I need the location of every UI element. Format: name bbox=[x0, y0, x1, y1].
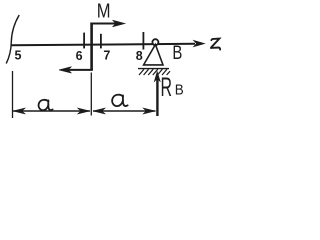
svg-text:M: M bbox=[97, 1, 111, 23]
dim arrowhead right-in (to RB shaft) bbox=[143, 108, 156, 114]
R_B label bbox=[161, 72, 184, 102]
couple top arrow (shaft) bbox=[90, 23, 116, 25]
dimension label a (left) bbox=[39, 100, 53, 110]
reaction force R_B arrow shaft bbox=[156, 78, 158, 116]
tick node 8 bbox=[142, 32, 144, 50]
dimension label a (right) bbox=[112, 95, 127, 106]
dimension extension line middle bbox=[90, 73, 92, 116]
couple bottom arrowhead bbox=[59, 67, 72, 73]
beam (main horizontal bar) bbox=[11, 44, 195, 46]
svg-text:B: B bbox=[175, 82, 184, 99]
z-axis arrowhead bbox=[194, 40, 205, 46]
support pin circle bbox=[152, 39, 158, 45]
tick node 7 bbox=[100, 34, 102, 49]
svg-text:5: 5 bbox=[15, 49, 22, 63]
dimension line a (left span) bbox=[13, 110, 90, 112]
dim arrowhead left-in (from middle) bbox=[93, 108, 106, 114]
svg-text:7: 7 bbox=[103, 48, 110, 62]
couple top arrowhead bbox=[113, 20, 126, 27]
support triangle bbox=[144, 45, 163, 65]
dim arrowhead left-out bbox=[13, 108, 26, 114]
left break curve bbox=[6, 15, 19, 64]
R_B arrowhead bbox=[154, 71, 160, 82]
ground hatching bbox=[139, 69, 170, 75]
svg-text:R: R bbox=[161, 72, 173, 102]
svg-text:6: 6 bbox=[76, 49, 83, 63]
dimension extension line left bbox=[12, 71, 14, 118]
ground line bbox=[138, 68, 169, 70]
tick node 6 bbox=[83, 33, 85, 49]
dimension line a (right span) bbox=[93, 110, 156, 112]
couple bottom arrow (shaft) bbox=[68, 69, 93, 71]
svg-text:8: 8 bbox=[136, 49, 143, 63]
svg-text:B: B bbox=[172, 43, 182, 64]
moment couple vertical bar bbox=[90, 23, 93, 71]
dim arrowhead right-in (to middle) bbox=[77, 108, 90, 114]
z axis label bbox=[211, 39, 220, 50]
